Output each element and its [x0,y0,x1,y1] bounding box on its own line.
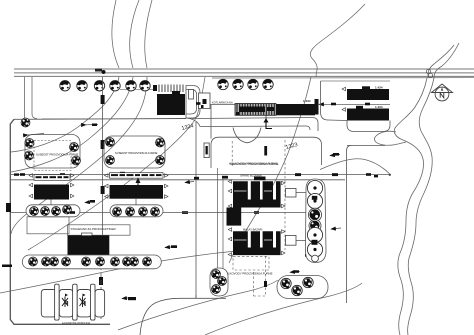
svg-text:KOLKOVODY PROIZVODNJA FURNE: KOLKOVODY PROIZVODNJA FURNE [224,272,273,276]
svg-text:STACENAR ZA PROFILAKTIKER: STACENAR ZA PROFILAKTIKER [71,227,117,231]
svg-text:1.434: 1.434 [303,99,311,103]
svg-text:1.434: 1.434 [375,105,383,109]
svg-text:MALAY BAZARI: MALAY BAZARI [243,228,263,232]
svg-text:A-DANKOVA ODDOLINA: A-DANKOVA ODDOLINA [62,322,90,325]
svg-text:SUSEDST PROIZVODNJA FURNE: SUSEDST PROIZVODNJA FURNE [36,153,79,157]
svg-text:1.434: 1.434 [375,86,383,90]
svg-text:KOLKOVODY PROIZVODNJA FURNE: KOLKOVODY PROIZVODNJA FURNE [229,162,278,166]
svg-text:KOTLARNICA NA: KOTLARNICA NA [212,101,233,105]
svg-text:SUSEDST PROIZVODNJA FURNE: SUSEDST PROIZVODNJA FURNE [115,151,158,155]
